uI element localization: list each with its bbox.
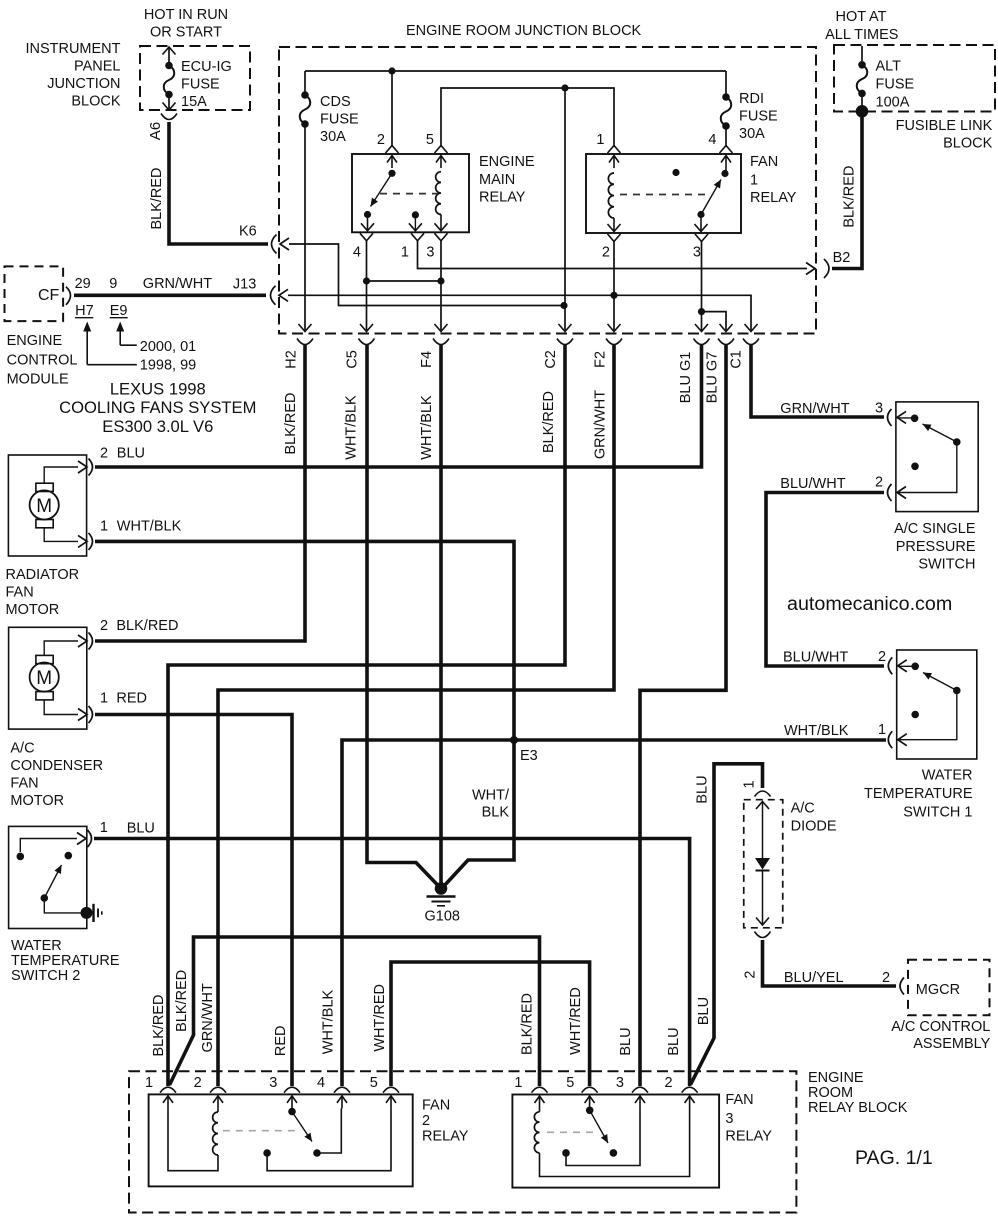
- wire condenser fan pin1 RED to fan2 relay pin3: [95, 715, 292, 1087]
- fan2 contact to pin4: [317, 1108, 341, 1153]
- engine room relay block (dashed box): [129, 1071, 796, 1212]
- svg-text:JUNCTION: JUNCTION: [47, 76, 120, 92]
- fan2 coil pin2-pin1: [217, 1108, 219, 1112]
- junction block bottom pins H2,C5,F4,C2,F2,G1,G7,C1: [299, 324, 312, 332]
- node C2 top junction: [561, 84, 568, 91]
- wts2 case ground: [81, 907, 93, 919]
- fan1 relay pin 1 terminal: [608, 146, 621, 154]
- E9 year arrow: [119, 327, 121, 345]
- wire BLU fan3 pin2 to A/C diode pin1: [691, 764, 763, 1085]
- svg-text:2: 2: [742, 971, 758, 979]
- svg-text:FAN: FAN: [10, 776, 38, 792]
- svg-text:4: 4: [353, 245, 361, 261]
- fan1 relay coil pin1-pin2: [608, 173, 614, 218]
- svg-text:BLU/WHT: BLU/WHT: [780, 476, 845, 492]
- relay: FAN 2 RELAY box: [149, 1094, 413, 1186]
- svg-text:PAG. 1/1: PAG. 1/1: [855, 1147, 933, 1169]
- switch: WATER TEMPERATURE SWITCH 1 box: [897, 650, 977, 759]
- svg-text:ENGINE: ENGINE: [7, 333, 63, 349]
- svg-text:5: 5: [566, 1075, 574, 1091]
- node E3: [510, 736, 518, 744]
- svg-text:BLU/WHT: BLU/WHT: [783, 650, 848, 666]
- svg-text:100A: 100A: [876, 95, 910, 111]
- svg-text:1: 1: [596, 132, 604, 148]
- fan2 switch pivot + arm: [288, 1108, 296, 1116]
- svg-text:TEMPERATURE: TEMPERATURE: [864, 786, 973, 802]
- motor: RADIATOR FAN MOTOR box: [8, 455, 86, 556]
- svg-text:SWITCH 2: SWITCH 2: [11, 968, 80, 984]
- svg-text:FAN: FAN: [6, 585, 34, 601]
- svg-text:A/C CONTROL: A/C CONTROL: [891, 1019, 990, 1035]
- wire fan1 pin2 down to F2: [613, 242, 615, 331]
- svg-text:M: M: [36, 496, 52, 517]
- fan1 relay floating contact: [672, 169, 679, 176]
- wire C1 GRN/WHT to pressure switch pin3: [751, 345, 884, 417]
- svg-text:ENGINE ROOM JUNCTION BLOCK: ENGINE ROOM JUNCTION BLOCK: [406, 23, 642, 39]
- condenser fan motor symbol: [30, 663, 59, 692]
- svg-text:15A: 15A: [181, 94, 207, 110]
- motor: A/C CONDENSER FAN MOTOR box: [9, 627, 87, 729]
- fan3 coil pin1-pin2: [539, 1109, 541, 1112]
- wire bus down to main relay pin 2: [391, 71, 393, 147]
- svg-text:2: 2: [875, 475, 883, 491]
- svg-text:3: 3: [269, 1075, 277, 1091]
- svg-text:WATER: WATER: [11, 938, 62, 954]
- svg-text:FAN: FAN: [725, 1092, 753, 1108]
- svg-text:FUSIBLE LINK: FUSIBLE LINK: [896, 118, 993, 134]
- svg-text:BLK/RED: BLK/RED: [151, 994, 167, 1056]
- svg-text:CONDENSER: CONDENSER: [10, 758, 103, 774]
- svg-text:RELAY BLOCK: RELAY BLOCK: [808, 1100, 908, 1116]
- instrument panel junction block (dashed box): [140, 46, 250, 110]
- fan2 contact to pin5: [263, 1149, 271, 1157]
- fan2 actuation dashed: [223, 1130, 300, 1132]
- svg-text:CF: CF: [38, 287, 60, 304]
- radiator fan motor symbol: [30, 490, 59, 519]
- svg-text:BLK/RED: BLK/RED: [520, 993, 536, 1055]
- svg-text:MGCR: MGCR: [916, 982, 960, 998]
- main relay switch pivot: [388, 170, 395, 177]
- fan1 relay pin4 contact: [725, 168, 727, 171]
- svg-text:CDS: CDS: [320, 94, 351, 110]
- switch: WATER TEMPERATURE SWITCH 2 box: [9, 826, 87, 928]
- svg-text:B2: B2: [833, 250, 851, 266]
- main relay pin 2 terminal: [386, 146, 399, 154]
- wire water temp switch2 pin1 BLU to fan3 relay pin2: [94, 839, 690, 1087]
- radiator motor pin 2 connector: [78, 461, 87, 473]
- svg-text:M: M: [36, 668, 52, 689]
- svg-text:A6: A6: [147, 122, 164, 140]
- svg-text:H7: H7: [75, 303, 94, 319]
- wire radiator fan pin1 WHT/BLK to E3: [95, 541, 514, 886]
- svg-text:3: 3: [616, 1075, 624, 1091]
- condenser motor pin 1 connector: [78, 709, 87, 721]
- svg-text:FUSE: FUSE: [320, 112, 359, 128]
- svg-text:BLU: BLU: [117, 446, 145, 462]
- svg-text:RELAY: RELAY: [750, 190, 797, 206]
- svg-text:FUSE: FUSE: [876, 77, 915, 93]
- svg-text:RADIATOR: RADIATOR: [6, 567, 80, 583]
- wire G1 BLU to radiator fan pin2: [95, 345, 702, 467]
- svg-text:FUSE: FUSE: [181, 77, 220, 93]
- svg-text:BLU G7: BLU G7: [705, 352, 721, 404]
- svg-text:MAIN: MAIN: [479, 172, 515, 188]
- svg-text:WATER: WATER: [922, 768, 973, 784]
- svg-text:BLK: BLK: [482, 805, 510, 821]
- wire F4 WHT/BLK to ground G108: [439, 345, 443, 885]
- pressure switch internals: [897, 417, 915, 419]
- svg-text:1: 1: [401, 245, 409, 261]
- svg-text:BLU: BLU: [618, 1027, 634, 1055]
- svg-text:GRN/WHT: GRN/WHT: [200, 983, 216, 1052]
- svg-text:MOTOR: MOTOR: [10, 793, 64, 809]
- node fusible link output: [856, 105, 869, 118]
- svg-text:1: 1: [878, 722, 886, 738]
- svg-text:RDI: RDI: [739, 91, 764, 107]
- svg-text:PRESSURE: PRESSURE: [896, 539, 976, 555]
- node: bus to main relay pin 2: [388, 67, 395, 74]
- svg-text:1: 1: [100, 691, 108, 707]
- svg-text:INSTRUMENT: INSTRUMENT: [25, 41, 120, 57]
- wire C5 WHT/BLK to ground G108: [367, 345, 439, 887]
- svg-text:BLU: BLU: [696, 997, 712, 1025]
- main relay switch arm: [371, 173, 393, 206]
- fan2 pins connectors: [160, 1087, 176, 1093]
- wts1 internals: [898, 665, 915, 667]
- svg-text:BLU: BLU: [666, 1027, 682, 1055]
- wire A6 BLK/RED from ECU-IG fuse to K6: [169, 122, 268, 244]
- wire H2 BLK/RED to condenser fan pin2: [95, 345, 305, 641]
- svg-text:BLK/RED: BLK/RED: [541, 391, 557, 453]
- wire WHT/RED fan2 pin5 to fan3 pin5: [391, 962, 590, 1086]
- svg-text:C5: C5: [345, 350, 361, 369]
- MGCR A/C control assembly dashed box: [908, 960, 990, 1016]
- svg-text:5: 5: [370, 1075, 378, 1091]
- fusible link block (dashed box): [834, 45, 995, 112]
- svg-text:OR START: OR START: [150, 25, 222, 41]
- diode pin 2 connector: [755, 932, 771, 938]
- svg-text:1: 1: [750, 173, 758, 189]
- diode symbol: [756, 802, 769, 810]
- svg-text:F2: F2: [593, 351, 609, 368]
- svg-text:H2: H2: [284, 350, 300, 369]
- wire J13 GRN/WHT across block to C1: [288, 295, 751, 330]
- wire main relay pin5 to fan1 relay pin1: [441, 88, 614, 147]
- main relay contact to pin 1: [412, 211, 419, 218]
- svg-text:CONTROL: CONTROL: [7, 353, 78, 369]
- svg-text:2: 2: [665, 1075, 673, 1091]
- svg-text:1: 1: [100, 820, 108, 836]
- svg-text:1: 1: [145, 1075, 153, 1091]
- ground G108: [435, 882, 448, 895]
- svg-text:ALL TIMES: ALL TIMES: [825, 27, 898, 43]
- fuse ALT 100A: [861, 46, 863, 61]
- svg-text:E3: E3: [520, 748, 538, 764]
- svg-text:2000, 01: 2000, 01: [140, 339, 196, 355]
- svg-text:SWITCH: SWITCH: [918, 557, 975, 573]
- svg-text:2: 2: [100, 618, 108, 634]
- svg-text:HOT IN RUN: HOT IN RUN: [144, 7, 228, 23]
- wire main relay pin4 down: [366, 241, 368, 330]
- engine control module CF (dashed box): [5, 266, 64, 321]
- wire (thin) from K6 into junction block: [289, 244, 564, 306]
- svg-text:BLK/RED: BLK/RED: [116, 618, 178, 634]
- svg-text:PANEL: PANEL: [74, 59, 120, 75]
- pressure switch pin 3 connector: [888, 409, 892, 426]
- diode pin 1 connector: [755, 791, 771, 797]
- svg-text:2: 2: [422, 1113, 430, 1129]
- svg-text:A/C SINGLE: A/C SINGLE: [894, 521, 976, 537]
- wire top bus CDS to RDI fuse: [305, 70, 726, 72]
- svg-text:1: 1: [100, 518, 108, 534]
- svg-text:3: 3: [875, 401, 883, 417]
- fan1 relay pin 4 terminal: [720, 146, 733, 154]
- svg-text:automecanico.com: automecanico.com: [787, 593, 952, 615]
- relay: FAN 3 RELAY box: [512, 1095, 719, 1188]
- svg-text:9: 9: [109, 276, 117, 292]
- fan3 actuation dashed: [547, 1131, 599, 1133]
- main relay coil: [436, 172, 441, 215]
- svg-text:GRN/WHT: GRN/WHT: [780, 401, 849, 417]
- connector K6 at junction block edge: [272, 235, 277, 254]
- svg-text:J13: J13: [233, 277, 256, 293]
- wire fan1 pin3 down to G1: [701, 242, 703, 331]
- svg-text:BLU G1: BLU G1: [678, 352, 694, 404]
- svg-text:BLK/RED: BLK/RED: [174, 970, 190, 1032]
- wire link pin4-pin3: [367, 280, 442, 282]
- svg-text:COOLING FANS SYSTEM: COOLING FANS SYSTEM: [59, 398, 256, 417]
- svg-text:BLK/RED: BLK/RED: [841, 166, 857, 228]
- wire branch G1 to G7: [702, 312, 727, 330]
- H7 year arrow: [86, 327, 88, 365]
- svg-text:LEXUS 1998: LEXUS 1998: [110, 380, 206, 399]
- svg-text:WHT/BLK: WHT/BLK: [784, 723, 849, 739]
- wire E3 WHT/BLK bus to water temp switch 1 pin1: [342, 740, 886, 1086]
- svg-text:RELAY: RELAY: [422, 1129, 469, 1145]
- svg-text:ALT: ALT: [876, 59, 902, 75]
- fan1 relay pins 2,3 terminals: [608, 234, 621, 242]
- op: FAN 1 RELAY box: [586, 154, 741, 233]
- svg-text:FUSE: FUSE: [739, 109, 778, 125]
- svg-text:WHT/BLK: WHT/BLK: [117, 518, 182, 534]
- svg-text:3: 3: [693, 245, 701, 261]
- fan3 pins connectors: [532, 1087, 548, 1093]
- fan1 relay switch pivot + arm: [697, 211, 704, 218]
- condenser motor pin 2 connector: [78, 635, 87, 647]
- svg-text:1: 1: [742, 780, 758, 788]
- svg-text:2: 2: [377, 132, 385, 148]
- svg-text:RED: RED: [116, 691, 147, 707]
- node: pin4/C5 junction: [363, 277, 370, 284]
- connector J13: [271, 286, 276, 305]
- wire BLU/WHT pressure switch pin2 to water temp switch1 pin2: [766, 493, 884, 667]
- fuse RDI 30A: [725, 71, 727, 94]
- diode: A/C DIODE dashed box: [744, 800, 783, 928]
- fuse ECU-IG 15A: [168, 47, 170, 62]
- svg-text:BLU: BLU: [695, 775, 711, 803]
- switch: A/C SINGLE PRESSURE SWITCH box: [896, 402, 978, 512]
- svg-text:A/C: A/C: [10, 741, 34, 757]
- svg-text:GRN/WHT: GRN/WHT: [593, 390, 609, 459]
- svg-text:30A: 30A: [739, 126, 765, 142]
- connector B2: [806, 263, 815, 275]
- MGCR connector: [900, 978, 904, 995]
- svg-text:WHT/: WHT/: [472, 788, 510, 804]
- svg-text:ROOM: ROOM: [808, 1085, 853, 1101]
- node C2/K6 junction: [560, 302, 567, 309]
- svg-text:30A: 30A: [320, 129, 346, 145]
- svg-text:C2: C2: [543, 350, 559, 369]
- wire main relay pin3 down to F4: [440, 241, 442, 330]
- wts2 switch arm: [44, 865, 61, 898]
- wire main relay pin1 to B2: [418, 241, 808, 269]
- wire B2 BLK/RED to ALT fuse: [832, 111, 862, 268]
- engine room junction block (dashed box): [279, 47, 816, 334]
- svg-text:K6: K6: [239, 224, 257, 240]
- svg-text:BLK/RED: BLK/RED: [283, 392, 299, 454]
- svg-text:BLU: BLU: [127, 821, 155, 837]
- svg-text:3: 3: [426, 245, 434, 261]
- main relay pins 4,1,3 terminals: [360, 233, 373, 241]
- svg-text:3: 3: [725, 1111, 733, 1127]
- wts1 pin 1 connector: [888, 731, 892, 748]
- svg-text:HOT AT: HOT AT: [835, 9, 886, 25]
- svg-text:2: 2: [100, 446, 108, 462]
- svg-text:WHT/RED: WHT/RED: [568, 987, 584, 1055]
- svg-text:FAN: FAN: [422, 1098, 450, 1114]
- op: ENGINE MAIN RELAY U1 box: [352, 154, 469, 232]
- svg-text:C1: C1: [729, 350, 745, 369]
- svg-text:E9: E9: [110, 303, 128, 319]
- pressure switch pin 2 connector: [888, 484, 892, 501]
- fan1 relay actuation dashed line: [620, 194, 706, 196]
- svg-text:SWITCH 1: SWITCH 1: [903, 805, 972, 821]
- radiator motor pin 1 connector: [78, 535, 87, 547]
- wts1 pin 2 connector: [888, 657, 892, 674]
- svg-text:RELAY: RELAY: [725, 1129, 772, 1145]
- svg-text:ECU-IG: ECU-IG: [181, 59, 232, 75]
- svg-text:1998, 99: 1998, 99: [140, 358, 196, 374]
- svg-text:WHT/RED: WHT/RED: [372, 984, 388, 1052]
- svg-text:FAN: FAN: [750, 154, 778, 170]
- svg-text:4: 4: [317, 1075, 325, 1091]
- node: pin3/F4 junction: [437, 277, 444, 284]
- svg-text:MOTOR: MOTOR: [6, 602, 60, 618]
- water temp switch 2 pin 1 connector: [77, 833, 86, 845]
- wire CDS fuse down to pin H2: [304, 127, 306, 330]
- wire BLU/YEL diode pin2 to MGCR: [763, 940, 897, 986]
- svg-text:RELAY: RELAY: [479, 190, 526, 206]
- svg-text:ENGINE: ENGINE: [808, 1070, 864, 1086]
- wire GRN/WHT CF to J13: [74, 293, 266, 297]
- fan3 switch pivot + arm: [586, 1107, 594, 1115]
- svg-text:RED: RED: [273, 1025, 289, 1056]
- fuse CDS 30A: [304, 71, 306, 92]
- svg-text:F4: F4: [419, 351, 435, 368]
- fan3 contact to pin3: [562, 1149, 570, 1157]
- main relay actuation dashed line: [380, 193, 438, 195]
- svg-text:GRN/WHT: GRN/WHT: [143, 276, 212, 292]
- svg-text:ASSEMBLY: ASSEMBLY: [913, 1036, 990, 1052]
- svg-text:ENGINE: ENGINE: [479, 154, 535, 170]
- svg-text:BLU/YEL: BLU/YEL: [784, 970, 844, 986]
- svg-text:BLOCK: BLOCK: [71, 94, 120, 110]
- svg-text:WHT/BLK: WHT/BLK: [344, 395, 360, 460]
- svg-text:1: 1: [514, 1075, 522, 1091]
- wire C2 BLK/RED to fan2 relay pin1: [168, 345, 565, 1086]
- svg-text:4: 4: [708, 132, 716, 148]
- main relay pin 5 terminal: [435, 146, 448, 154]
- wire G7 BLU to fan3 relay pin3: [640, 345, 726, 1086]
- node: J13/F2 junction: [610, 292, 617, 299]
- svg-text:MODULE: MODULE: [7, 372, 69, 388]
- svg-text:WHT/BLK: WHT/BLK: [419, 395, 435, 460]
- svg-text:WHT/BLK: WHT/BLK: [321, 989, 337, 1054]
- svg-text:BLOCK: BLOCK: [943, 136, 992, 152]
- wire C2 column: [564, 88, 566, 330]
- wire fan3 pin1 BLK/RED link to fan2 pin1: [170, 937, 540, 1086]
- svg-text:BLK/RED: BLK/RED: [149, 167, 165, 229]
- svg-text:2: 2: [882, 970, 890, 986]
- main relay contact to pin 4: [364, 211, 371, 218]
- svg-text:DIODE: DIODE: [791, 819, 837, 835]
- svg-text:2: 2: [878, 649, 886, 665]
- wts2 internal wiring: [20, 839, 77, 853]
- wire F2 GRN/WHT to fan2 relay pin2: [218, 345, 614, 1086]
- svg-text:A/C: A/C: [791, 801, 815, 817]
- svg-text:ES300 3.0L V6: ES300 3.0L V6: [102, 417, 213, 436]
- svg-text:2: 2: [194, 1075, 202, 1091]
- svg-text:5: 5: [426, 132, 434, 148]
- svg-text:TEMPERATURE: TEMPERATURE: [11, 953, 120, 969]
- svg-text:G108: G108: [425, 909, 460, 925]
- svg-text:2: 2: [602, 245, 610, 261]
- svg-text:29: 29: [75, 276, 91, 292]
